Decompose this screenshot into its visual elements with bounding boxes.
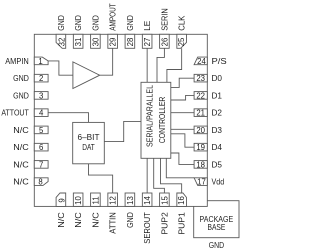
svg-text:GND: GND	[125, 15, 135, 31]
wire D5 controller to pin18	[171, 153, 194, 164]
svg-text:22: 22	[196, 91, 205, 100]
svg-text:16: 16	[177, 196, 186, 205]
svg-text:19: 19	[196, 143, 205, 152]
wire D0 controller to pin23	[171, 78, 194, 87]
pin 31 box	[73, 34, 83, 48]
svg-text:Vdd: Vdd	[212, 177, 225, 187]
svg-text:6–BIT: 6–BIT	[78, 133, 100, 142]
wire D1 controller to pin22	[171, 95, 194, 100]
pin 20 box	[194, 126, 207, 134]
pin 28 box	[125, 34, 135, 48]
wire pin27 LE to controller	[146, 48, 148, 82]
pin 15 box	[160, 193, 170, 206]
svg-text:17: 17	[197, 178, 206, 187]
svg-text:12: 12	[109, 196, 118, 205]
package base box	[194, 201, 239, 238]
pin 12 box	[108, 193, 118, 206]
pin 27 box	[142, 34, 152, 48]
svg-text:LE: LE	[143, 20, 152, 31]
svg-text:D3: D3	[212, 126, 223, 135]
pin 14 box	[142, 193, 152, 206]
pin 32 box	[56, 34, 66, 48]
pin 24 box	[194, 57, 207, 65]
svg-text:23: 23	[196, 74, 205, 83]
svg-text:AMPIN: AMPIN	[5, 57, 29, 66]
pin 18 box	[194, 161, 207, 169]
pin 17 box	[194, 178, 207, 186]
svg-text:21: 21	[196, 109, 205, 118]
svg-text:GND: GND	[13, 91, 29, 101]
chip body outline	[34, 34, 207, 206]
svg-text:GND: GND	[91, 15, 101, 31]
svg-text:30: 30	[91, 37, 100, 46]
svg-text:D1: D1	[212, 91, 223, 100]
svg-text:N/C: N/C	[13, 125, 29, 135]
pin 16 box	[177, 193, 187, 206]
serial/parallel controller block	[141, 82, 171, 158]
wire controller to pin15 PUP2	[154, 158, 165, 193]
pin 2 box	[34, 74, 48, 82]
svg-text:N/C: N/C	[56, 212, 66, 228]
svg-text:5: 5	[39, 126, 44, 135]
svg-text:DAT: DAT	[82, 142, 95, 152]
pin 13 box	[125, 193, 135, 206]
wire op-amp output to pin29 AMPOUT	[100, 48, 113, 75]
svg-text:9: 9	[57, 198, 66, 202]
pin 4 box	[34, 109, 48, 117]
wire pin26 SERIN to controller	[157, 48, 164, 82]
svg-text:7: 7	[39, 160, 43, 169]
svg-text:28: 28	[126, 38, 135, 47]
svg-text:2: 2	[39, 74, 43, 83]
svg-text:N/C: N/C	[13, 177, 29, 187]
svg-text:AMPOUT: AMPOUT	[108, 3, 118, 31]
wire controller to pin16 PUP1	[161, 158, 182, 193]
svg-text:20: 20	[196, 126, 205, 135]
svg-text:N/C: N/C	[91, 212, 101, 228]
svg-text:26: 26	[160, 38, 169, 47]
svg-text:N/C: N/C	[13, 160, 29, 170]
wire pin1 AMPIN to op-amp input	[48, 61, 73, 75]
wire pin4 ATTOUT to DAT block	[48, 113, 88, 123]
wire controller to pin14 SEROUT	[146, 158, 148, 193]
pin 29 box	[108, 34, 118, 48]
svg-text:GND: GND	[13, 74, 29, 84]
op-amp U1	[73, 62, 100, 89]
pin 11 box	[91, 193, 101, 206]
pin 1 box	[34, 57, 48, 65]
svg-text:31: 31	[74, 38, 83, 47]
svg-text:ATTIN: ATTIN	[108, 212, 117, 234]
svg-text:CLK: CLK	[177, 15, 186, 31]
pin 7 box	[34, 161, 48, 169]
svg-text:24: 24	[197, 57, 206, 66]
pin 3 box	[34, 92, 48, 100]
svg-text:SERIAL/PARALLEL: SERIAL/PARALLEL	[145, 84, 155, 147]
pin 19 box	[194, 143, 207, 151]
svg-text:ATTOUT: ATTOUT	[1, 108, 29, 118]
svg-text:P/S: P/S	[212, 57, 227, 66]
pin 30 box	[91, 34, 101, 48]
svg-text:BASE: BASE	[207, 223, 225, 233]
wire DAT block to pin12 ATTIN	[89, 164, 113, 193]
svg-text:D4: D4	[212, 143, 223, 152]
svg-text:11: 11	[91, 196, 100, 204]
svg-text:PUP2: PUP2	[160, 212, 170, 235]
svg-text:SEROUT: SEROUT	[143, 212, 152, 244]
pin 23 box	[194, 74, 207, 82]
svg-text:32: 32	[57, 38, 66, 47]
svg-text:6: 6	[39, 143, 43, 152]
pin 10 box	[73, 193, 83, 206]
pin 9 box	[56, 193, 66, 206]
pin 25 box	[177, 34, 187, 48]
svg-text:29: 29	[109, 38, 118, 47]
svg-text:13: 13	[126, 196, 135, 205]
svg-text:18: 18	[196, 160, 205, 169]
6-bit DAT attenuator block	[73, 122, 105, 163]
svg-text:8: 8	[38, 178, 42, 187]
svg-text:PUP1: PUP1	[177, 212, 187, 235]
svg-text:1: 1	[38, 57, 42, 66]
wire pin25 CLK to controller	[167, 48, 182, 82]
pin 6 box	[34, 143, 48, 151]
svg-text:GND: GND	[209, 241, 225, 250]
svg-text:D5: D5	[212, 160, 223, 169]
svg-text:D0: D0	[212, 74, 223, 83]
pin 8 box	[34, 178, 48, 186]
svg-text:10: 10	[74, 196, 83, 205]
pin 22 box	[194, 92, 207, 100]
wire D3 controller to pin20	[171, 128, 194, 130]
svg-text:GND: GND	[74, 15, 84, 31]
wire D4 controller to pin19	[171, 134, 194, 147]
wire Vdd controller to pin17	[166, 158, 194, 178]
svg-text:14: 14	[143, 196, 152, 205]
pin 26 box	[160, 34, 170, 48]
svg-text:D2: D2	[212, 109, 223, 118]
svg-text:GND: GND	[125, 212, 135, 228]
svg-text:CONTROLLER: CONTROLLER	[157, 96, 167, 143]
svg-text:GND: GND	[56, 15, 66, 31]
svg-text:N/C: N/C	[74, 212, 84, 228]
svg-text:3: 3	[39, 91, 43, 100]
svg-text:4: 4	[39, 109, 44, 118]
svg-text:15: 15	[160, 196, 169, 205]
svg-text:N/C: N/C	[13, 143, 29, 153]
wire control bus DAT block to controller	[104, 121, 141, 141]
svg-text:SERIN: SERIN	[160, 8, 169, 30]
pin 21 box	[194, 109, 207, 117]
wire D2 controller to pin21	[171, 112, 194, 114]
svg-text:25: 25	[177, 37, 186, 46]
pin 5 box	[34, 126, 48, 134]
svg-text:27: 27	[143, 38, 152, 47]
